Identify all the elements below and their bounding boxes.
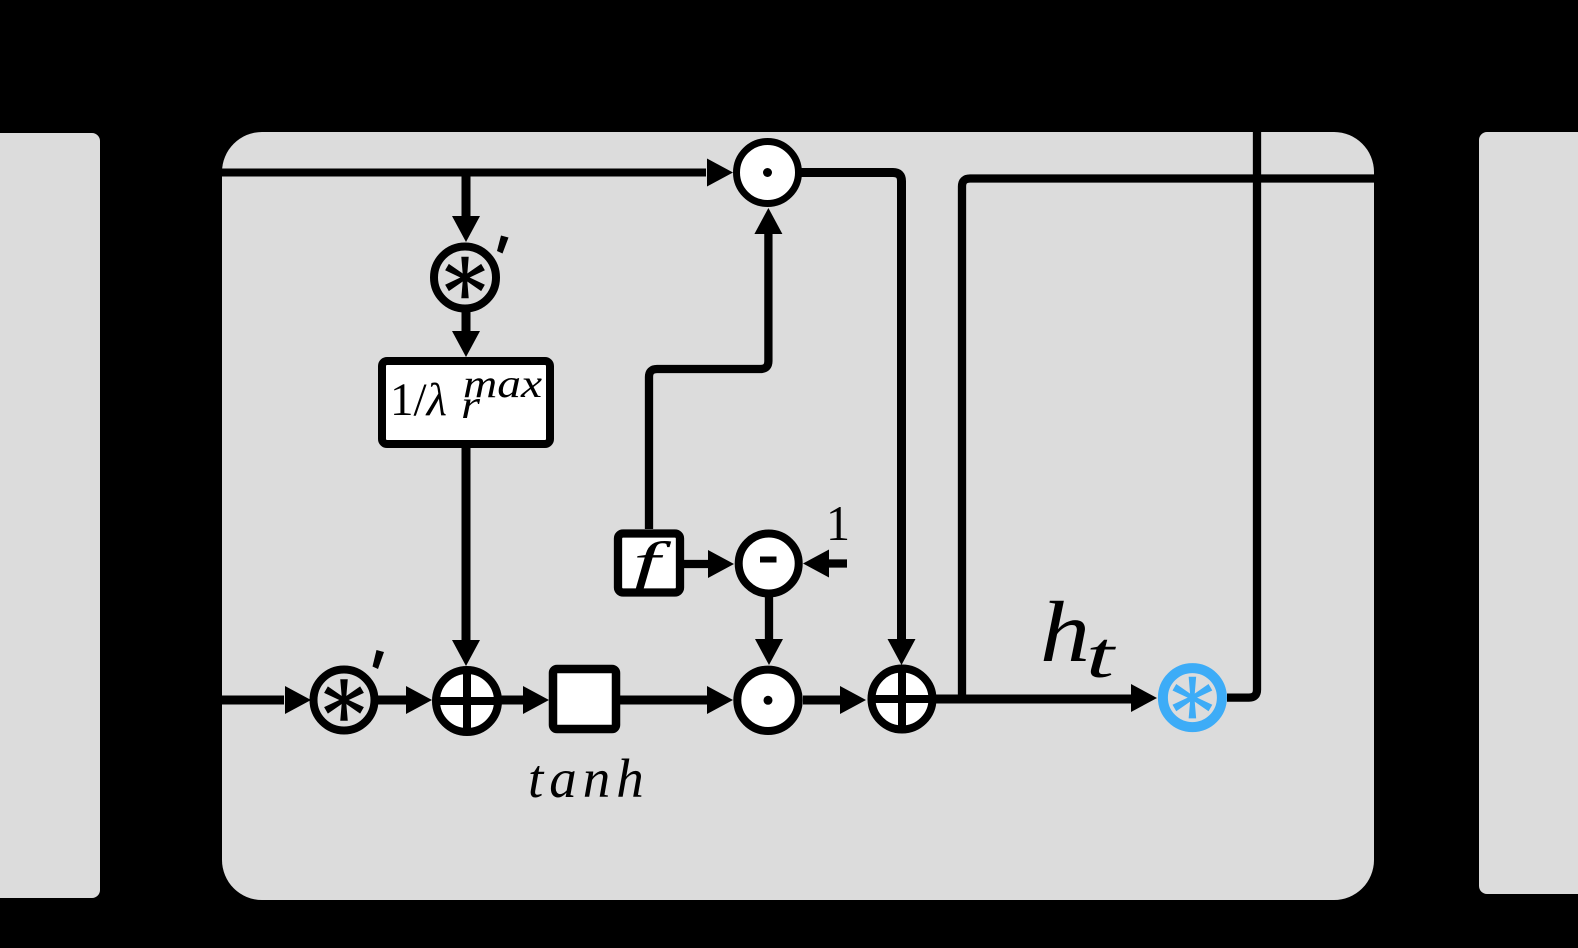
op dot-product D1 top [737, 142, 799, 204]
op dot-product D2 [737, 670, 798, 731]
op plus P1 [433, 667, 501, 735]
wire branch up to c_t export [962, 179, 1374, 700]
op blue convolution C3 [1163, 668, 1222, 727]
wire C2 to P1 [377, 686, 432, 714]
svg-text:1/λ: 1/λ [390, 374, 447, 426]
wire M1 to dot D2 [755, 594, 783, 665]
svg-text:r: r [461, 382, 481, 427]
wire f to minus M1 [684, 550, 734, 578]
wire C3 up and out top [1227, 132, 1257, 698]
wire f to dot D1 via elbow [649, 208, 782, 529]
label h_t [1040, 583, 1117, 692]
wire h_t output from P2 to blue conv [936, 684, 1157, 712]
svg-text:h: h [1040, 583, 1090, 680]
right context block [1479, 132, 1578, 894]
scale box 1/lambda_r^max [382, 361, 550, 444]
wire lambda box to plus P1 [452, 448, 480, 666]
left context block [0, 133, 100, 898]
wire D1 to plus P2 [798, 173, 916, 666]
cell body [222, 132, 1374, 900]
wire branch down to conv1 [452, 176, 480, 242]
wire C1 to lambda box [452, 310, 480, 357]
svg-text:1: 1 [826, 495, 850, 551]
wire tanh to dot D2 [620, 686, 733, 714]
wire P1 to tanh box [501, 686, 549, 714]
op convolution C1 [434, 247, 496, 309]
prime mark on C1 [497, 236, 509, 254]
wire D2 to plus P2 [803, 686, 866, 714]
svg-text:t: t [1086, 619, 1117, 692]
wire c_t-1 top input [222, 159, 733, 187]
op convolution C2 [314, 670, 375, 731]
tanh box [553, 669, 616, 729]
constant 1 with arrow into M1 [803, 495, 850, 578]
op plus P2 [868, 665, 936, 733]
wire x_t bottom input [222, 686, 311, 714]
f box [618, 530, 680, 595]
op minus M1 [739, 534, 799, 594]
svg-text:tanh: tanh [528, 748, 650, 809]
prime mark on C2 [373, 650, 385, 669]
